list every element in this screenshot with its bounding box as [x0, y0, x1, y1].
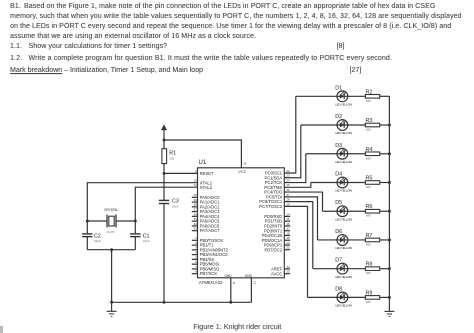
power symbol VCC	[161, 124, 167, 130]
wire U1 GND pin 31	[250, 278, 252, 303]
svg-text:LED-YELLOW: LED-YELLOW	[335, 246, 352, 250]
resistor R7	[364, 239, 366, 241]
svg-text:LED-YELLOW: LED-YELLOW	[335, 189, 352, 193]
LED D6	[337, 235, 348, 246]
resistor R8	[364, 268, 366, 270]
LED D7	[337, 263, 348, 274]
mark [8]	[337, 43, 345, 50]
node rail D6	[388, 238, 391, 241]
svg-text:PC7/TOSC2: PC7/TOSC2	[259, 204, 283, 209]
resistor R4	[364, 153, 366, 155]
wire PC0 to D1	[284, 96, 296, 173]
figure caption	[193, 323, 281, 330]
svg-text:22: 22	[286, 169, 290, 173]
svg-text:37: 37	[194, 208, 198, 212]
svg-text:D1: D1	[335, 85, 342, 91]
svg-text:40: 40	[194, 193, 198, 197]
wire caps junction to ground rail	[111, 250, 113, 303]
svg-text:LED-YELLOW: LED-YELLOW	[335, 275, 352, 279]
wire ground rail	[112, 301, 252, 303]
mark breakdown line	[10, 67, 203, 74]
wire PC6 to D7	[284, 202, 313, 269]
ground symbol left	[111, 302, 113, 311]
svg-text:34: 34	[194, 222, 198, 226]
svg-text:LED-YELLOW: LED-YELLOW	[335, 160, 352, 164]
svg-text:680: 680	[366, 156, 371, 160]
node rail D7	[388, 267, 391, 270]
svg-text:19: 19	[286, 236, 290, 240]
wire PC5 to D6	[284, 197, 317, 240]
svg-text:16: 16	[286, 222, 290, 226]
svg-text:RESET: RESET	[200, 171, 214, 176]
wire row D7	[313, 268, 366, 270]
question text line 3	[10, 23, 451, 30]
svg-text:LED-YELLOW: LED-YELLOW	[335, 131, 352, 135]
svg-text:680: 680	[366, 214, 371, 218]
svg-text:U1: U1	[199, 160, 207, 166]
LED D3	[337, 148, 348, 159]
resistor R1	[163, 140, 165, 149]
svg-text:25: 25	[286, 183, 290, 187]
wire PC7 to D8	[284, 206, 307, 297]
svg-text:AVCC: AVCC	[271, 271, 282, 276]
wire row D4	[311, 181, 366, 183]
svg-text:D5: D5	[335, 200, 342, 206]
node VCC junction	[163, 139, 166, 142]
node rail D8	[388, 296, 391, 299]
wire VCC rail to U1 pin 10	[164, 140, 241, 168]
svg-text:26: 26	[286, 188, 290, 192]
crystal X1	[87, 220, 107, 222]
ground symbol right	[388, 297, 390, 311]
svg-text:28: 28	[286, 198, 290, 202]
svg-text:680: 680	[366, 242, 371, 246]
svg-text:36: 36	[194, 212, 198, 216]
svg-text:11: 11	[232, 281, 236, 284]
svg-text:24: 24	[286, 178, 290, 182]
wire C3 to ground rail	[163, 204, 165, 303]
node crystal right junction	[134, 220, 137, 223]
capacitor C2	[82, 233, 92, 235]
svg-text:D7: D7	[335, 258, 342, 264]
node rail D3	[388, 152, 391, 155]
svg-text:PB7/SCK: PB7/SCK	[200, 271, 218, 276]
svg-text:30: 30	[286, 270, 290, 274]
svg-text:21: 21	[286, 246, 290, 250]
svg-text:18: 18	[286, 231, 290, 235]
svg-text:10: 10	[243, 161, 247, 165]
svg-text:D6: D6	[335, 229, 342, 235]
svg-text:D4: D4	[335, 171, 342, 177]
capacitor C1	[130, 233, 140, 235]
wire PC1 to D2	[284, 125, 301, 178]
svg-text:R5: R5	[366, 175, 373, 181]
svg-text:680: 680	[366, 300, 371, 304]
question text line 2	[10, 13, 462, 20]
svg-text:680: 680	[366, 185, 371, 189]
LED D2	[337, 120, 348, 131]
svg-text:GND: GND	[245, 274, 253, 278]
resistor R2	[364, 95, 366, 97]
wire XTAL2 net	[135, 187, 197, 234]
svg-text:32: 32	[286, 265, 290, 269]
LED D4	[337, 177, 348, 188]
svg-text:33: 33	[194, 227, 198, 231]
LED D1	[337, 91, 348, 102]
node capacitors-ground junction	[110, 248, 113, 251]
svg-text:CRYSTAL: CRYSTAL	[104, 208, 119, 212]
svg-text:R4: R4	[366, 147, 373, 153]
svg-text:14: 14	[286, 212, 290, 216]
node RESET junction	[163, 172, 166, 175]
svg-text:R6: R6	[366, 204, 373, 210]
svg-text:R7: R7	[366, 233, 373, 239]
wire PC2 to D3	[284, 154, 306, 183]
svg-text:38: 38	[194, 203, 198, 207]
resistor R5	[364, 181, 366, 183]
svg-text:XTAL2: XTAL2	[200, 185, 213, 190]
node C3-ground junction	[163, 301, 166, 304]
svg-text:27: 27	[286, 193, 290, 197]
node GND pin 11 junction	[229, 301, 232, 304]
node rail D5	[388, 210, 391, 213]
IC U1 body	[198, 168, 285, 278]
wire row D8	[308, 296, 366, 298]
svg-text:13: 13	[194, 179, 198, 183]
LED D8	[337, 292, 348, 303]
svg-text:35: 35	[194, 217, 198, 221]
resistor R3	[364, 124, 366, 126]
wire row D2	[301, 124, 366, 126]
svg-text:D3: D3	[335, 143, 342, 149]
svg-text:10k: 10k	[169, 157, 174, 161]
svg-text:PA7/ADC7: PA7/ADC7	[200, 228, 220, 233]
svg-text:10uF: 10uF	[172, 204, 179, 208]
resistor R9	[364, 296, 366, 298]
wire row D6	[318, 239, 366, 241]
svg-text:R8: R8	[366, 262, 373, 268]
svg-text:R2: R2	[366, 89, 373, 95]
LED D5	[337, 206, 348, 217]
svg-text:29: 29	[286, 202, 290, 206]
svg-text:16 MHz: 16 MHz	[106, 231, 115, 234]
wire row D5	[323, 210, 366, 212]
svg-text:ATMEGA32: ATMEGA32	[199, 280, 223, 285]
svg-text:D2: D2	[335, 114, 342, 120]
svg-text:23: 23	[286, 174, 290, 178]
svg-text:VCC: VCC	[238, 170, 246, 174]
svg-text:LED-YELLOW: LED-YELLOW	[335, 304, 352, 308]
svg-text:LED-YELLOW: LED-YELLOW	[335, 103, 352, 107]
wire PC3 to D4	[284, 182, 311, 187]
scan artifact bottom-left	[0, 326, 3, 333]
wire capacitors bottom	[87, 249, 135, 251]
node rail D4	[388, 181, 391, 184]
svg-text:12: 12	[194, 183, 198, 187]
node ground rail left junction	[110, 301, 113, 304]
svg-text:D8: D8	[335, 286, 342, 292]
question text line 4	[10, 33, 256, 40]
wire RESET to U1 pin 9	[164, 172, 198, 174]
wire row D3	[306, 153, 366, 155]
question text line 1	[10, 3, 21, 10]
svg-text:LED-YELLOW: LED-YELLOW	[335, 217, 352, 221]
svg-text:22pF: 22pF	[143, 239, 150, 243]
svg-text:680: 680	[366, 128, 371, 132]
svg-text:R3: R3	[366, 118, 373, 124]
svg-text:GND: GND	[224, 274, 232, 278]
svg-text:39: 39	[194, 198, 198, 202]
svg-text:R9: R9	[366, 290, 373, 296]
wire XTAL1 net	[87, 183, 197, 234]
resistor R6	[364, 210, 366, 212]
node crystal left junction	[86, 220, 89, 223]
question 1.2	[10, 55, 22, 62]
question 1.1	[10, 43, 22, 50]
node rail D2	[388, 124, 391, 127]
wire PC4 to D5	[284, 192, 322, 211]
wire row D1	[296, 95, 366, 97]
svg-text:680: 680	[366, 99, 371, 103]
svg-text:PD7/OC2: PD7/OC2	[264, 247, 282, 252]
wire right rail	[388, 96, 390, 297]
wire U1 GND pin 11	[230, 278, 232, 303]
capacitor C3	[163, 173, 165, 200]
svg-text:22pF: 22pF	[94, 239, 101, 243]
svg-text:17: 17	[286, 227, 290, 231]
mark [27]	[350, 67, 362, 74]
svg-text:31: 31	[253, 281, 257, 285]
svg-text:20: 20	[286, 241, 290, 245]
svg-text:680: 680	[366, 271, 371, 275]
svg-text:15: 15	[286, 217, 290, 221]
